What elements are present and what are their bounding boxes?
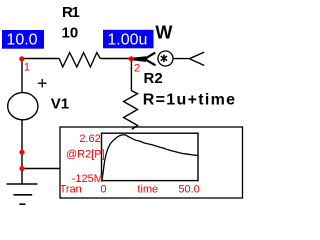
open terminal barbs — [190, 52, 205, 65]
node voltage box 10.0 — [2, 30, 44, 49]
svg-text:10: 10 — [62, 24, 79, 41]
svg-text:50.0: 50.0 — [178, 183, 199, 195]
voltage source V1 circle — [8, 93, 38, 120]
svg-text:0: 0 — [100, 183, 106, 195]
resistor R2 body — [124, 91, 138, 130]
wire junction to scope — [22, 168, 61, 170]
svg-text:1: 1 — [24, 61, 30, 73]
svg-text:R=1u+time: R=1u+time — [143, 92, 237, 109]
wattmeter circle — [158, 51, 173, 66]
resistor R1 body — [59, 53, 100, 67]
node 1 junction dot — [19, 56, 24, 61]
wattmeter arrow shaft — [132, 56, 146, 62]
scope waveform curve — [102, 135, 198, 181]
scope inner plot frame — [102, 133, 199, 180]
svg-text:time: time — [137, 183, 158, 195]
svg-text:R2: R2 — [144, 70, 163, 87]
wire wattmeter to open terminal — [173, 58, 190, 60]
node 2 junction dot — [129, 56, 134, 61]
wattmeter asterisk — [161, 55, 167, 62]
svg-text:W: W — [155, 23, 172, 43]
scope window box — [60, 127, 243, 198]
ground symbol — [7, 184, 38, 204]
wire V1 bottom to ground — [21, 120, 23, 184]
svg-text:R1: R1 — [62, 4, 79, 21]
svg-text:10.0: 10.0 — [6, 32, 37, 49]
plus sign of V1 — [38, 79, 47, 88]
wire node2 down to R2 — [130, 59, 132, 91]
wire node1 to R1 — [22, 58, 60, 60]
svg-text:@R2[P]: @R2[P] — [66, 148, 105, 160]
svg-text:1.00u: 1.00u — [107, 32, 147, 49]
wire node1 down to V1 — [21, 59, 23, 93]
junction dot on ground wire upper — [19, 150, 24, 155]
svg-text:2: 2 — [134, 63, 140, 75]
wattmeter arrow barbs — [145, 53, 156, 66]
junction dot on ground wire lower — [19, 166, 24, 171]
svg-text:Tran: Tran — [60, 183, 82, 195]
svg-text:2.62: 2.62 — [79, 133, 100, 145]
svg-text:V1: V1 — [51, 96, 69, 113]
node voltage box 1.00u — [103, 30, 154, 49]
wire R1 to node2 — [100, 58, 131, 60]
